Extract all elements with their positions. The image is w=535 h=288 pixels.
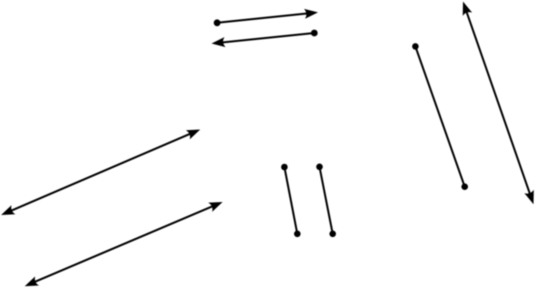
line 2 (lower-left double arrow) [23, 197, 225, 288]
line 1 (upper-left double arrow) [0, 125, 202, 220]
ray 1 (top, pointing right) [214, 7, 319, 26]
line 3 (right double arrow) [458, 0, 535, 206]
segment 1 (middle left, dots at both ends) [281, 164, 301, 237]
segment 3 (right, dots at both ends) [412, 43, 468, 190]
ray 2 (below ray 1, pointing left) [211, 30, 318, 49]
segment 2 (middle right, dots at both ends) [316, 164, 336, 238]
